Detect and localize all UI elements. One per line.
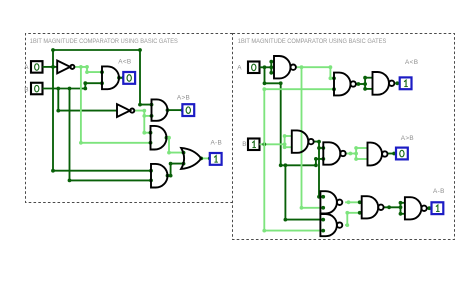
wire NAND1 top input stub [271,61,274,63]
nand gate NAND4 [373,72,395,95]
wire NOT1 output to AND1 top input [75,67,102,72]
or gate OR1 (A=B) [181,148,201,169]
node junction NAND5 out [349,152,353,156]
node junction B' to NAND5 [317,146,321,150]
left panel dashed border [26,34,233,203]
wire AND3 output to OR top input [167,138,184,153]
node A<B box input pin [395,81,399,85]
node corner A' rail bottom [300,206,304,210]
node junction A to NAND8 [284,163,288,167]
node AND2 bottom input pin [150,114,154,118]
node AND3 bottom input pin [149,141,153,145]
node corner A top rail right [138,48,142,52]
wire NAND10 top input stub [401,202,405,204]
node corner B row end [83,87,87,91]
svg-text:A>B: A>B [401,135,414,142]
node junction B row 1 [56,87,60,91]
node NAND5 top input pin [321,146,325,150]
node corner NAND8 to NAND9 [345,211,349,215]
nand gate NAND1 (A inverter) [274,56,296,78]
node junction B' to AND2 [142,114,146,118]
svg-text:A-B: A-B [433,188,445,195]
node NAND1 bottom input pin [269,71,273,75]
node corner B to AND1 [83,81,87,85]
input A (right panel) value 0 [248,62,260,74]
node corner AND4 to OR [169,162,173,166]
output A-B (left) value 1 [210,153,222,165]
node OR bottom input pin [182,162,186,166]
inverter NOT2 (B') [117,104,134,117]
wire NAND8 output to NAND9 bottom input [345,213,362,225]
right panel dashed border [233,34,455,240]
nand gate NAND8 [320,214,342,236]
node AND3 top input pin [149,131,153,135]
node corner A' to AND1 [85,65,89,69]
nand gate NAND6 [368,143,388,166]
svg-text:B: B [24,87,29,94]
nand gate NAND3 [334,73,356,96]
node corner AND4 out [169,174,173,178]
wire A branch to NAND8 top input [285,165,323,219]
output A<B (left) value 0 [123,72,135,84]
wire NAND10 output to A-B box [427,207,432,209]
wire NAND4 input tie bar [364,78,366,89]
node AND4 output pin [166,174,170,178]
node junction B row 2 [68,87,72,91]
wire NAND9 output to NAND10 tie [384,206,401,208]
wire A row to NOT1 input [43,66,58,68]
wire AND2 output to A>B box [168,109,183,111]
svg-text:A: A [237,65,242,72]
nand gate NAND5 [323,142,345,164]
wire NAND10 input tie bar [400,203,402,214]
svg-text:A<B: A<B [405,59,418,66]
node corner A top rail [51,48,55,52]
wire NAND6 bottom input stub [356,158,367,160]
node NAND10 top input pin [399,201,403,205]
node junction B out [262,142,266,146]
node corner A to AND4 [51,169,55,173]
input B (right panel) value 1 [248,139,260,151]
output A-B (right) value 1 [432,202,444,214]
wire A down rail to AND4 top input [53,67,151,171]
nand gate NAND9 [362,196,384,218]
svg-text:1BIT MAGNITUDE COMPARATOR USIN: 1BIT MAGNITUDE COMPARATOR USING BASIC GA… [30,38,179,45]
node junction NAND9 out [387,205,391,209]
node corner B down rail [262,229,266,233]
wire NAND1 bottom input stub [271,72,274,74]
and gate AND4 (AB) [151,164,168,188]
wire B rail up to NAND3 bottom input [264,89,334,144]
wire NAND3 output to NAND4 tie [356,83,365,85]
node junction A row [51,65,55,69]
and gate AND1 (A<B) [102,66,119,89]
node corner A' to NAND3 b [329,76,333,80]
wire AND1 output to A<B box [119,77,123,79]
wire NAND2 top input stub [285,135,292,137]
node NAND9 bottom input pin [358,211,362,215]
node AND1 top input pin [100,70,104,74]
node junction A' branch [79,65,83,69]
node tie joint NAND2 [283,142,287,146]
node corner AND3 to OR [167,151,171,155]
node corner B' to NAND7 [317,195,321,199]
wire AND4 output to OR bottom input [168,164,184,176]
node NAND7 bottom input pin [321,206,325,210]
nand gate NAND10 [405,197,427,219]
node A-B box input pin [427,206,431,210]
node A>B box input pin [181,108,185,112]
node AND1 output pin [117,76,121,80]
node corner B to AND4 [68,179,72,183]
output A<B (right) value 1 [400,77,412,89]
wire NAND5 output to NAND6 tie [346,153,357,155]
wire NAND10 bottom input stub [401,213,405,215]
node tie joint NAND6 [354,152,358,156]
node corner NAND8 out [345,223,349,227]
node NAND2 top input pin [283,134,287,138]
svg-text:A: A [24,64,29,71]
and gate AND3 (A'B') [151,126,167,150]
node NAND6 top input pin [354,146,358,150]
wire A to AND2 top input via top rail [53,50,152,105]
wire NAND4 top input stub [365,77,372,79]
node NAND3 bottom input pin [332,87,336,91]
wire NAND1 input tie bar [270,62,272,73]
node tie joint NAND4 [363,82,367,86]
node NAND7 top input pin [321,195,325,199]
output A>B (left) value 0 [182,104,194,116]
node corner B to NOT2 [56,109,60,113]
node AND3 output pin [165,136,169,140]
wire NAND6 top input stub [356,147,367,149]
wire NAND7 output to NAND9 top input [345,201,362,203]
node NAND8 bottom input pin [321,229,325,233]
node AND4 top input pin [149,169,153,173]
wire A' rail down to NAND7 bottom input [302,67,324,208]
node corner A rail 4 [314,163,318,167]
node OR top input pin [182,151,186,155]
node NAND4 top input pin [363,76,367,80]
node corner B' to AND3 [142,131,146,135]
node corner A rail 1 [263,81,267,85]
node corner A' to NAND3 [329,65,333,69]
node tie joint NAND10 [399,205,403,209]
svg-text:A-B: A-B [210,140,222,147]
node OR output pin [199,157,203,161]
node junction A' out [300,65,304,69]
node NAND5 bottom input pin [321,157,325,161]
wire B up to AND1 bottom input [85,83,102,88]
wire A' rail down to AND3 bottom input [81,67,151,143]
node tie joint NAND1 [269,65,273,69]
node A<B box input pin [121,76,125,80]
node NAND8 top input pin [321,218,325,222]
node corner B up rail [262,87,266,91]
node junction NAND7 out [347,200,351,204]
wire B' rail down to NAND7 top input [319,148,323,197]
svg-text:1BIT MAGNITUDE COMPARATOR USIN: 1BIT MAGNITUDE COMPARATOR USING BASIC GA… [238,38,387,45]
node corner A rail 5 [314,157,318,161]
wire NAND2 input tie bar [284,136,286,147]
node corner A rail 3 [279,163,283,167]
wire NAND4 bottom input stub [365,88,372,90]
nand gate NAND2 (B inverter) [292,130,314,152]
node corner A drop to AND2 [138,103,142,107]
wire B' to AND2 bottom input [144,115,151,117]
input A (left panel) value 0 [31,61,43,73]
node NAND4 bottom input pin [363,87,367,91]
node NAND9 top input pin [358,200,362,204]
wire NAND1 output to NAND3 top input [297,67,334,78]
wire B rail down to NAND8 bottom input [264,144,323,230]
wire NAND2 output to NAND5 top input [314,142,323,148]
node NAND6 bottom input pin [354,157,358,161]
node corner A' to AND3 [79,141,83,145]
wire B to NOT2 input [58,89,117,111]
output A>B (right) value 0 [396,148,408,160]
node NAND2 bottom input pin [283,145,287,149]
node AND2 output pin [166,108,170,112]
node NAND3 top input pin [332,76,336,80]
wire A rail to NAND5 bottom input [265,67,324,165]
wire NAND6 input tie bar [355,148,357,159]
wire NAND4 output to A<B box [394,82,399,84]
node corner A to NAND8 [284,218,288,222]
wire B down to AND4 bottom input [70,89,152,181]
node A-B box input pin [208,157,212,161]
svg-text:A<B: A<B [118,58,131,65]
node AND1 bottom input pin [100,81,104,85]
node corner AND3 out [167,136,171,140]
node A>B box input pin [392,152,396,156]
wire NAND2 bottom input stub [285,146,292,148]
node NAND1 top input pin [269,60,273,64]
node corner A' to AND1 b [85,70,89,74]
nand gate NAND7 [320,191,342,213]
svg-text:B: B [242,141,247,148]
inverter NOT1 (A') [57,61,74,74]
svg-text:A>B: A>B [177,95,190,102]
wire B to NAND2 tie [260,143,285,145]
node junction B' out [142,109,146,113]
input B (left panel) value 0 [31,83,43,95]
node junction A out [263,65,267,69]
wire OR output to A-B box [201,157,210,159]
node AND2 top input pin [150,103,154,107]
node AND4 bottom input pin [149,179,153,183]
node corner B' out [317,140,321,144]
wire B row [43,88,86,90]
and gate AND2 (A>B) [152,99,168,120]
node junction NAND3 out [357,82,361,86]
wire NOT2 output rail [135,111,151,133]
node NAND10 bottom input pin [399,212,403,216]
wire NAND6 output to A>B box [388,153,396,155]
node corner A rail 2 [279,81,283,85]
wire A to NAND1 tie [260,66,272,68]
